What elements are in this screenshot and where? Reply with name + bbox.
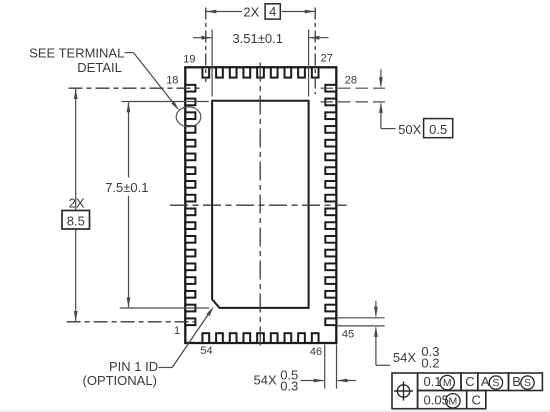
svg-text:54X: 54X	[254, 372, 277, 387]
svg-text:C: C	[472, 392, 481, 407]
svg-text:PIN 1 ID: PIN 1 ID	[109, 359, 158, 374]
svg-text:S: S	[524, 377, 531, 389]
svg-text:2X: 2X	[243, 4, 259, 19]
svg-text:0.5: 0.5	[429, 122, 447, 137]
svg-text:M: M	[449, 395, 458, 407]
svg-text:A: A	[481, 374, 490, 389]
svg-text:S: S	[492, 377, 499, 389]
svg-text:27: 27	[321, 53, 333, 65]
svg-text:3.51±0.1: 3.51±0.1	[232, 31, 283, 46]
svg-text:0.05: 0.05	[424, 392, 449, 407]
svg-text:50X: 50X	[398, 122, 421, 137]
svg-text:46: 46	[310, 346, 322, 358]
svg-text:54: 54	[200, 345, 212, 357]
svg-text:4: 4	[269, 4, 276, 19]
svg-text:7.5±0.1: 7.5±0.1	[105, 180, 148, 195]
svg-text:DETAIL: DETAIL	[77, 60, 122, 75]
svg-text:45: 45	[342, 329, 354, 341]
svg-text:SEE TERMINAL: SEE TERMINAL	[29, 45, 124, 60]
svg-text:M: M	[443, 377, 452, 389]
svg-text:0.1: 0.1	[424, 374, 442, 389]
svg-text:(OPTIONAL): (OPTIONAL)	[83, 373, 157, 388]
svg-text:19: 19	[183, 53, 195, 65]
svg-text:18: 18	[166, 74, 178, 86]
svg-text:B: B	[512, 374, 521, 389]
svg-text:28: 28	[345, 74, 357, 86]
svg-text:54X: 54X	[393, 350, 416, 365]
svg-text:1: 1	[174, 325, 180, 337]
svg-text:0.2: 0.2	[421, 356, 439, 371]
svg-text:C: C	[465, 374, 474, 389]
svg-text:8.5: 8.5	[67, 214, 85, 229]
svg-text:0.3: 0.3	[280, 378, 298, 393]
svg-text:2X: 2X	[69, 196, 85, 211]
